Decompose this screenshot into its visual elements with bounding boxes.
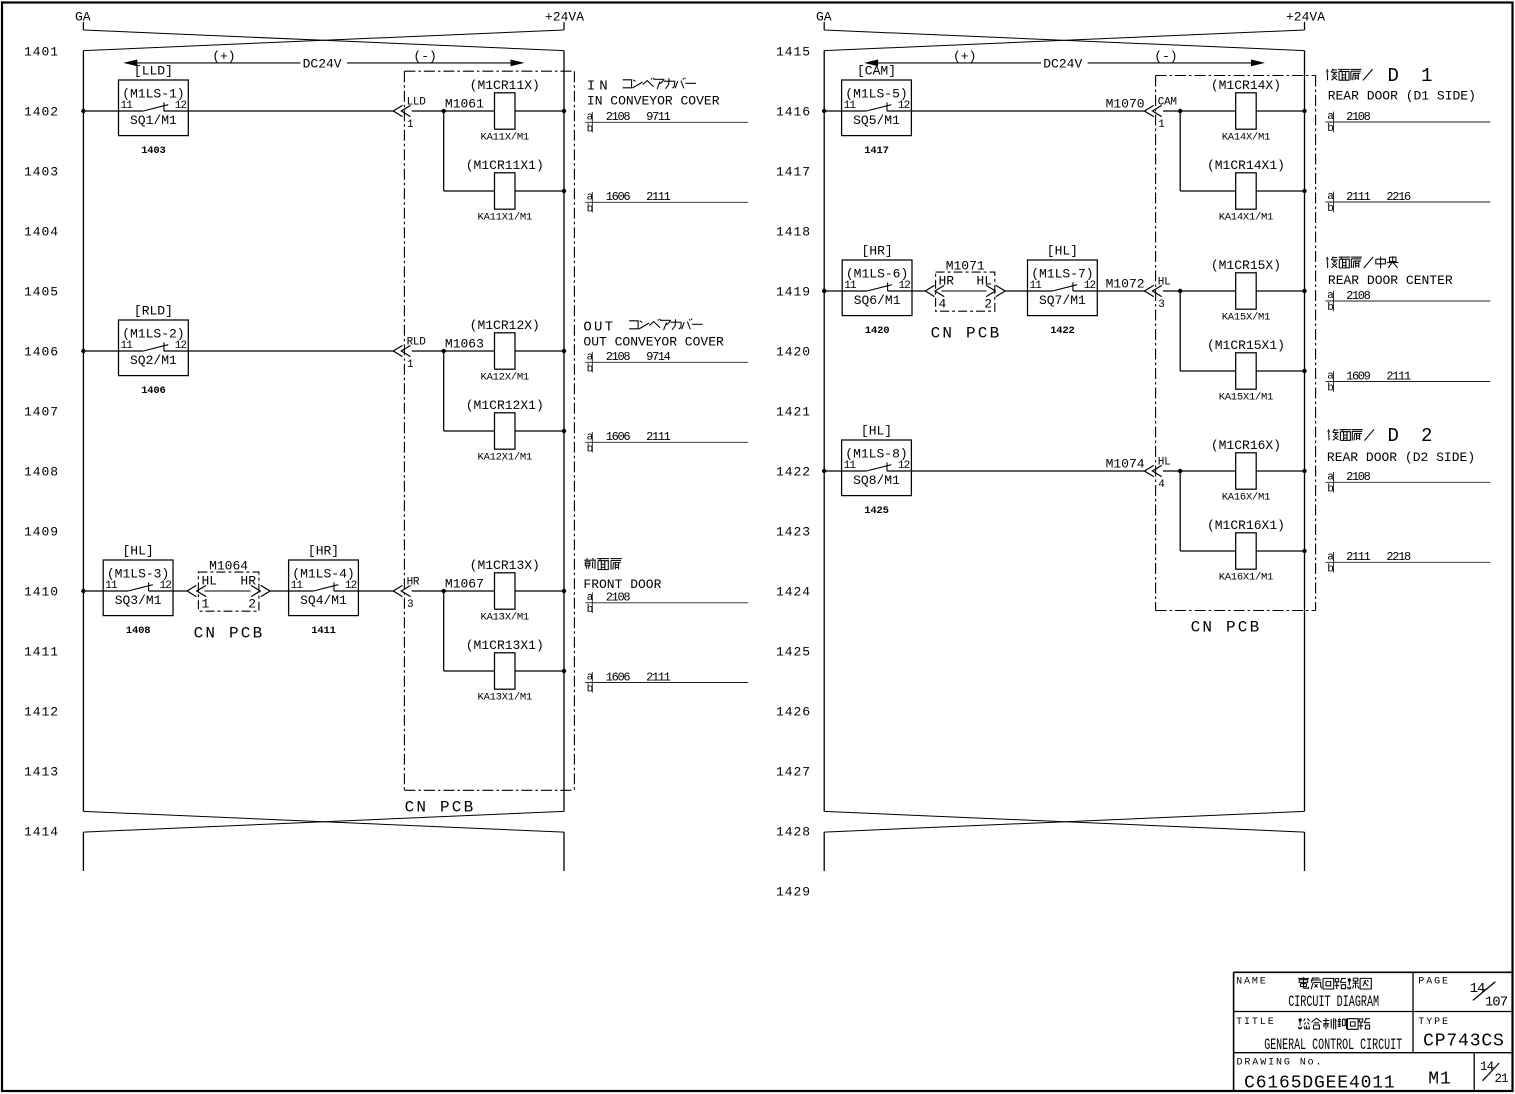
svg-text:(M1CR16X1): (M1CR16X1) [1207, 518, 1285, 533]
continuation crossover (bottom) right ladder [824, 811, 1304, 871]
net header OUT conveyor cover (Japanese) [583, 319, 702, 336]
label [HL] [861, 424, 892, 439]
svg-text:M1063: M1063 [445, 336, 484, 351]
node right bus row 1419 [1302, 289, 1306, 293]
title block frame [1234, 972, 1513, 1091]
svg-text:CP743CS: CP743CS [1423, 1031, 1505, 1051]
node GA label (left ladder) [75, 10, 91, 25]
svg-text:+24VA: +24VA [1286, 10, 1325, 25]
title block TITLE cell [1236, 1017, 1402, 1054]
net a/b 2108 (row 1422) [1326, 470, 1491, 495]
svg-text:1411: 1411 [311, 625, 335, 637]
svg-text:3: 3 [1158, 299, 1164, 311]
svg-text:KA13X/M1: KA13X/M1 [481, 612, 529, 624]
svg-text:(M1CR11X): (M1CR11X) [470, 78, 540, 93]
svg-text:4: 4 [939, 297, 947, 312]
svg-text:11: 11 [105, 580, 118, 592]
svg-text:b: b [1327, 203, 1333, 215]
svg-text:1404: 1404 [24, 225, 59, 240]
label M1072 [1106, 276, 1145, 291]
svg-text:D: D [1388, 65, 1399, 87]
svg-text:[HL]: [HL] [861, 424, 892, 439]
net a/b 2108 9711 (row 1402) [585, 110, 748, 135]
svg-text:(+): (+) [953, 49, 976, 64]
line number 1417 [776, 165, 811, 180]
net header REAR DOOR (D2 SIDE) [1327, 450, 1475, 465]
svg-text:b: b [587, 124, 593, 136]
svg-text:1: 1 [202, 597, 210, 612]
wire switch SQ8/M1 to connector HL [887, 470, 1145, 472]
svg-text:LLD: LLD [407, 97, 427, 109]
node +24VA label (right ladder) [1286, 10, 1325, 25]
wire connector to node M1063 [412, 350, 444, 352]
svg-text:b: b [1327, 383, 1333, 395]
svg-text:RLD: RLD [407, 337, 427, 349]
net header front door (Japanese) [584, 558, 622, 570]
svg-text:11: 11 [121, 340, 134, 352]
svg-text:TITLE: TITLE [1236, 1017, 1276, 1028]
svg-text:SQ3/M1: SQ3/M1 [115, 593, 162, 608]
line number 1409 [24, 525, 59, 540]
wire coil M1CR15X to right bus [1256, 290, 1304, 292]
svg-text:1402: 1402 [24, 105, 59, 120]
node right bus row 1406 [562, 349, 566, 353]
label CN PCB (left ladder box) [405, 799, 476, 817]
limit switch SQ3/M1 (M1LS-3) ref 1408 [103, 560, 173, 637]
right ladder power rail stubs and continuation crossover (top) [824, 22, 1304, 51]
svg-text:2108: 2108 [606, 110, 631, 124]
wire switch SQ5/M1 to connector CAM [887, 110, 1145, 112]
wire bus to switch SQ2/M1 [83, 350, 118, 352]
node rail junction row 1410 (left bus) [81, 589, 85, 593]
node junction M1074 [1178, 469, 1182, 473]
net a/b 2108 9714 (row 1406) [585, 350, 748, 375]
svg-text:1414: 1414 [24, 825, 59, 840]
node right bus branch M1CR13X1 [562, 669, 566, 673]
svg-text:12: 12 [1084, 280, 1096, 292]
svg-text:1427: 1427 [776, 765, 811, 780]
line number 1407 [24, 405, 59, 420]
line number 1425 [776, 645, 811, 660]
line number 1415 [776, 45, 811, 60]
svg-text:1606: 1606 [606, 670, 631, 684]
label M1070 [1106, 96, 1145, 111]
svg-text:KA14X/M1: KA14X/M1 [1222, 132, 1270, 144]
svg-text:[RLD]: [RLD] [134, 304, 173, 319]
svg-text:b: b [1327, 484, 1333, 496]
wire coil M1CR15X1 to right bus [1256, 370, 1304, 372]
net a/b 1606 2111 (row 1411) [585, 670, 748, 695]
DC24V supply arrow (left ladder) [123, 49, 524, 72]
svg-text:KA14X1/M1: KA14X1/M1 [1219, 212, 1273, 224]
node rail junction row 1402 (left bus) [81, 109, 85, 113]
net header REAR DOOR (D1 SIDE) [1328, 88, 1476, 103]
svg-text:b: b [1327, 123, 1333, 135]
svg-text:11: 11 [844, 280, 857, 292]
node junction M1070 [1178, 109, 1182, 113]
svg-text:1424: 1424 [776, 585, 811, 600]
line number 1416 [776, 105, 811, 120]
node M1061 [442, 96, 485, 113]
wire coil M1CR12X to right bus [515, 350, 564, 352]
net a/b 2111 2216 (row 1417) [1326, 190, 1491, 215]
line number 1408 [24, 465, 59, 480]
svg-text:11: 11 [121, 100, 134, 112]
svg-text:M1: M1 [1428, 1069, 1451, 1089]
line number 1422 [776, 465, 811, 480]
svg-text:KA13X1/M1: KA13X1/M1 [478, 692, 532, 704]
net header IN CONVEYOR COVER [587, 93, 720, 108]
wire coil M1CR11X1 to right bus [515, 190, 564, 192]
svg-text:(M1CR14X): (M1CR14X) [1211, 78, 1281, 93]
svg-text:1405: 1405 [24, 285, 59, 300]
net header rear door D1 (Japanese) [1326, 65, 1432, 87]
label [HL] [122, 544, 153, 559]
relay coil M1CR12X (KA12X/M1) [470, 318, 540, 384]
svg-text:1410: 1410 [24, 585, 59, 600]
svg-text:(M1CR12X1): (M1CR12X1) [466, 398, 544, 413]
connector pin RLD/1 on CN PCB boundary [393, 337, 426, 372]
svg-text:11: 11 [844, 460, 857, 472]
svg-text:M1072: M1072 [1106, 276, 1145, 291]
wire bus to switch SQ1/M1 [83, 110, 118, 112]
svg-text:4: 4 [1158, 479, 1165, 491]
limit switch SQ1/M1 (M1LS-1) ref 1403 [119, 80, 189, 157]
svg-text:[HR]: [HR] [308, 544, 339, 559]
svg-text:HR: HR [240, 573, 256, 588]
connector pin HL/3 on CN PCB boundary [1145, 277, 1171, 312]
svg-text:1416: 1416 [776, 105, 811, 120]
svg-text:2: 2 [248, 597, 256, 612]
svg-text:M1064: M1064 [209, 559, 248, 574]
svg-text:[CAM]: [CAM] [857, 64, 896, 79]
svg-text:1417: 1417 [864, 145, 888, 157]
svg-text:12: 12 [898, 280, 910, 292]
svg-text:REAR DOOR CENTER: REAR DOOR CENTER [1328, 273, 1453, 288]
line number 1404 [24, 225, 59, 240]
svg-text:NAME: NAME [1236, 976, 1268, 987]
wire node to coil M1CR11X [444, 110, 495, 112]
svg-text:KA12X/M1: KA12X/M1 [481, 372, 529, 384]
line number 1401 [24, 45, 59, 60]
svg-text:CN PCB: CN PCB [931, 325, 1002, 343]
wire bus to switch SQ3/M1 [83, 590, 103, 592]
svg-text:1: 1 [407, 119, 414, 131]
limit switch SQ7/M1 (M1LS-7) ref 1422 [1028, 260, 1098, 337]
wire node to coil M1CR14X [1180, 110, 1236, 112]
svg-text:PAGE: PAGE [1418, 976, 1450, 987]
svg-text:(M1CR15X): (M1CR15X) [1211, 258, 1281, 273]
line number 1403 [24, 165, 59, 180]
line number 1412 [24, 705, 59, 720]
svg-text:(M1CR12X): (M1CR12X) [470, 318, 540, 333]
wire left bus GA (left ladder) [82, 51, 84, 812]
svg-text:2111: 2111 [1346, 190, 1371, 204]
svg-text:b: b [587, 444, 593, 456]
line number 1427 [776, 765, 811, 780]
svg-text:SQ6/M1: SQ6/M1 [854, 293, 901, 308]
line number 1411 [24, 645, 59, 660]
svg-text:1409: 1409 [24, 525, 59, 540]
svg-text:1609: 1609 [1346, 369, 1371, 383]
svg-text:DC24V: DC24V [303, 56, 342, 71]
wire branch from node M1063 to coil M1CR12X1 [444, 351, 495, 431]
svg-text:12: 12 [175, 340, 187, 352]
node M1067 [442, 576, 484, 593]
node right bus row 1422 [1302, 469, 1306, 473]
svg-text:2218: 2218 [1386, 550, 1411, 564]
relay coil M1CR16X (KA16X/M1) [1211, 438, 1281, 504]
net a/b 1606 2111 (row 1407) [585, 430, 748, 455]
connector M1071 (CN PCB) pins HR/4 HL/2 [925, 259, 1005, 312]
svg-text:1425: 1425 [864, 505, 888, 517]
svg-text:1420: 1420 [865, 325, 889, 337]
svg-text:2: 2 [1421, 425, 1432, 447]
svg-text:12: 12 [898, 460, 910, 472]
wire connector to junction [1163, 110, 1180, 112]
net a/b 1609 2111 (row 1420) [1326, 369, 1491, 394]
svg-text:2108: 2108 [1346, 289, 1371, 303]
svg-text:2108: 2108 [1346, 470, 1371, 484]
svg-text:1403: 1403 [141, 145, 165, 157]
svg-text:CAM: CAM [1158, 97, 1177, 109]
wire M1064 to switch SQ4/M1 [270, 590, 289, 592]
wire switch SQ1/M1 to connector LLD [164, 110, 393, 112]
svg-text:1606: 1606 [606, 190, 631, 204]
svg-text:11: 11 [1030, 280, 1043, 292]
svg-text:1419: 1419 [776, 285, 811, 300]
net header REAR DOOR CENTER [1328, 273, 1453, 288]
svg-text:+24VA: +24VA [545, 10, 584, 25]
svg-text:1423: 1423 [776, 525, 811, 540]
label [HL] [1047, 244, 1078, 259]
node GA label (right ladder) [816, 10, 832, 25]
DC24V supply arrow (right ladder) [864, 49, 1265, 72]
svg-text:OUT: OUT [583, 320, 615, 336]
svg-text:2: 2 [984, 297, 992, 312]
svg-text:1: 1 [1158, 119, 1165, 131]
svg-text:GA: GA [75, 10, 91, 25]
label CN PCB (M1064 connector) [194, 625, 265, 643]
svg-text:1428: 1428 [776, 825, 811, 840]
svg-text:(+): (+) [212, 49, 235, 64]
wire SQ7 to connector HL/3 [1073, 290, 1145, 292]
label [HR] [861, 244, 892, 259]
relay coil M1CR14X (KA14X/M1) [1211, 78, 1281, 144]
node right bus branch M1CR16X1 [1302, 549, 1306, 553]
wire branch to coil M1CR16X1 [1180, 471, 1236, 551]
wire left bus GA (right ladder) [823, 51, 825, 812]
net a/b 1606 2111 (row 1403) [585, 190, 748, 215]
svg-text:[HL]: [HL] [1047, 244, 1078, 259]
wire connector to node M1067 [412, 590, 444, 592]
label [RLD] [134, 304, 173, 319]
svg-text:b: b [1327, 564, 1333, 576]
svg-text:1415: 1415 [776, 45, 811, 60]
line number 1410 [24, 585, 59, 600]
svg-text:CN PCB: CN PCB [405, 799, 476, 817]
net header OUT CONVEYOR COVER [583, 335, 724, 350]
svg-text:1422: 1422 [776, 465, 811, 480]
label [CAM] [857, 64, 896, 79]
node rail junction row 1419 (left bus) [822, 289, 826, 293]
net header IN conveyor cover (Japanese) [587, 78, 696, 95]
label CN PCB (right ladder box) [1191, 619, 1262, 637]
line number 1428 [776, 825, 811, 840]
svg-text:M1074: M1074 [1106, 456, 1145, 471]
node right bus branch M1CR11X1 [562, 189, 566, 193]
node rail junction row 1406 (left bus) [81, 349, 85, 353]
label [LLD] [134, 64, 173, 79]
svg-text:b: b [587, 684, 593, 696]
wire coil M1CR16X to right bus [1256, 470, 1304, 472]
node right bus branch M1CR15X1 [1302, 369, 1306, 373]
wire bus to switch SQ6/M1 [824, 290, 842, 292]
net header FRONT DOOR [583, 577, 661, 592]
wire branch to coil M1CR15X1 [1180, 291, 1236, 371]
svg-text:[HL]: [HL] [122, 544, 153, 559]
svg-text:1425: 1425 [776, 645, 811, 660]
wire coil M1CR12X1 to right bus [515, 430, 564, 432]
svg-text:1413: 1413 [24, 765, 59, 780]
line number 1429 [776, 885, 811, 900]
svg-text:KA11X/M1: KA11X/M1 [481, 132, 529, 144]
svg-text:2111: 2111 [646, 430, 671, 444]
wire coil M1CR14X1 to right bus [1256, 190, 1304, 192]
net a/b 2108 (row 1416) [1326, 110, 1491, 135]
svg-text:b: b [587, 204, 593, 216]
svg-text:DC24V: DC24V [1043, 56, 1082, 71]
svg-text:HL: HL [202, 573, 218, 588]
left ladder power rail stubs and continuation crossover (top) [83, 22, 564, 51]
svg-text:(M1CR11X1): (M1CR11X1) [466, 158, 544, 173]
connector M1064 (CN PCB) pins HL/1 HR/2 [187, 559, 270, 612]
svg-text:D: D [1388, 425, 1399, 447]
svg-text:M1067: M1067 [445, 576, 484, 591]
connector pin HL/4 on CN PCB boundary (right ladder) [1145, 457, 1171, 492]
line number 1405 [24, 285, 59, 300]
svg-text:1407: 1407 [24, 405, 59, 420]
wire connector to junction [1163, 470, 1180, 472]
connector pin LLD/1 on CN PCB boundary [393, 97, 426, 132]
svg-text:1429: 1429 [776, 885, 811, 900]
wire coil M1CR16X1 to right bus [1256, 550, 1304, 552]
relay coil M1CR13X (KA13X/M1) [470, 558, 540, 624]
line number 1423 [776, 525, 811, 540]
svg-text:DRAWING No.: DRAWING No. [1237, 1058, 1324, 1069]
svg-text:KA15X1/M1: KA15X1/M1 [1219, 392, 1273, 404]
limit switch SQ2/M1 (M1LS-2) ref 1406 [119, 320, 189, 397]
svg-text:HL: HL [976, 273, 992, 288]
net header rear door D2 (Japanese) [1328, 425, 1433, 447]
svg-text:21: 21 [1495, 1072, 1509, 1086]
svg-text:14: 14 [1470, 981, 1485, 997]
svg-text:2108: 2108 [606, 591, 631, 605]
wire branch from node M1061 to coil M1CR11X1 [444, 111, 495, 191]
net header rear door center (Japanese) [1327, 256, 1399, 268]
node rail junction row 1416 (left bus) [822, 109, 826, 113]
connector pin CAM/1 on CN PCB boundary (right ladder) [1145, 97, 1177, 132]
wire branch to coil M1CR14X1 [1180, 111, 1236, 191]
relay coil M1CR11X1 (KA11X1/M1) [466, 158, 544, 224]
wire bus to switch SQ5/M1 [824, 110, 841, 112]
wire right bus +24VA (left ladder) [563, 51, 565, 812]
svg-text:TYPE: TYPE [1418, 1017, 1450, 1028]
wire node to coil M1CR16X [1180, 470, 1236, 472]
svg-text:12: 12 [159, 580, 171, 592]
svg-text:b: b [587, 604, 593, 616]
line number 1402 [24, 105, 59, 120]
svg-text:KA11X1/M1: KA11X1/M1 [478, 212, 532, 224]
relay coil M1CR12X1 (KA12X1/M1) [466, 398, 544, 464]
svg-text:11: 11 [844, 100, 857, 112]
wire node to coil M1CR15X [1180, 290, 1236, 292]
continuation crossover (bottom) left ladder [83, 811, 564, 871]
svg-text:1417: 1417 [776, 165, 811, 180]
relay coil M1CR15X (KA15X/M1) [1211, 258, 1281, 324]
node right bus branch M1CR14X1 [1302, 189, 1306, 193]
wire SQ3 to connector M1064 [149, 590, 188, 592]
node M1063 [442, 336, 484, 353]
node junction M1072 [1178, 289, 1182, 293]
line number 1426 [776, 705, 811, 720]
wire SQ4 to connector HR/3 [334, 590, 393, 592]
wire SQ6 to connector M1071 [888, 290, 926, 292]
wire coil M1CR13X to right bus [515, 590, 564, 592]
svg-text:GA: GA [816, 10, 832, 25]
svg-text:1421: 1421 [776, 405, 811, 420]
CN PCB boundary box (right ladder, dash-dot) [1156, 76, 1316, 611]
wire connector to node M1061 [412, 110, 444, 112]
label M1074 [1106, 456, 1145, 471]
line number 1406 [24, 345, 59, 360]
line number 1418 [776, 225, 811, 240]
relay coil M1CR16X1 (KA16X1/M1) [1207, 518, 1285, 584]
svg-text:GENERAL CONTROL CIRCUIT: GENERAL CONTROL CIRCUIT [1264, 1036, 1402, 1054]
svg-text:SQ8/M1: SQ8/M1 [853, 473, 900, 488]
svg-text:1401: 1401 [24, 45, 59, 60]
svg-text:2216: 2216 [1386, 190, 1411, 204]
wire coil M1CR14X to right bus [1256, 110, 1304, 112]
limit switch SQ8/M1 (M1LS-8) ref 1425 [842, 440, 912, 517]
wire right bus +24VA (right ladder) [1304, 51, 1306, 812]
svg-text:11: 11 [291, 580, 304, 592]
svg-text:IN CONVEYOR COVER: IN CONVEYOR COVER [587, 93, 720, 108]
title block NAME cell [1236, 976, 1379, 1011]
svg-text:(M1CR13X1): (M1CR13X1) [466, 638, 544, 653]
svg-text:SQ5/M1: SQ5/M1 [853, 113, 900, 128]
wire node to coil M1CR12X [444, 350, 495, 352]
wire branch from M1067 to coil M1CR13X1 [444, 591, 495, 671]
svg-text:(M1CR13X): (M1CR13X) [470, 558, 540, 573]
relay coil M1CR11X (KA11X/M1) [470, 78, 540, 144]
svg-text:1411: 1411 [24, 645, 59, 660]
net a/b 2108 (row 1410) [585, 591, 748, 616]
svg-text:1: 1 [407, 359, 414, 371]
svg-text:1406: 1406 [24, 345, 59, 360]
svg-text:1408: 1408 [24, 465, 59, 480]
svg-text:1422: 1422 [1050, 325, 1074, 337]
wire bus to switch SQ8/M1 [824, 470, 841, 472]
net a/b 2108 (row 1419) [1326, 289, 1491, 314]
svg-text:2111: 2111 [1386, 369, 1411, 383]
svg-text:12: 12 [898, 100, 910, 112]
wire switch SQ2/M1 to connector RLD [164, 350, 393, 352]
svg-text:[LLD]: [LLD] [134, 64, 173, 79]
title block TYPE cell CP743CS [1418, 1017, 1504, 1051]
svg-text:(-): (-) [413, 49, 436, 64]
line number 1421 [776, 405, 811, 420]
